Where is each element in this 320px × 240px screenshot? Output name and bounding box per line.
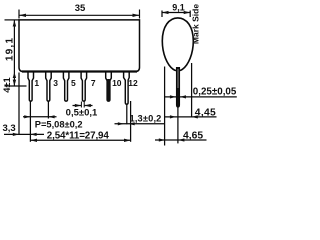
svg-text:4,45: 4,45: [195, 108, 216, 119]
svg-text:19,1: 19,1: [4, 37, 15, 61]
svg-text:0,25±0,05: 0,25±0,05: [193, 87, 237, 98]
arrowheads 35 dim: [19, 14, 26, 17]
arrowheads 4,65 (pinch at lead centerline): [159, 138, 165, 141]
arrowheads 19,1 dim: [13, 20, 16, 27]
P=5,08 dim line: [23, 116, 57, 118]
0,5 dim arrows: [73, 105, 82, 107]
dim line 35: [19, 14, 140, 16]
svg-text:4±1: 4±1: [2, 77, 12, 92]
arrowheads 0,5 (outside pinch): [75, 104, 81, 107]
pin 10 (sectioned, dark): [106, 72, 112, 101]
svg-text:P=5,08±0,2: P=5,08±0,2: [35, 120, 83, 130]
arrowheads 3,3 (outside pinch): [13, 133, 19, 136]
pin 12: [124, 72, 130, 104]
arrowheads 0,25 (outside pinch at lead): [170, 95, 176, 98]
svg-text:35: 35: [75, 3, 86, 14]
ext line right top corner: [139, 10, 141, 19]
pin3 centerline ext: [47, 102, 49, 119]
ellipse-right ext: [191, 63, 193, 117]
dim line 19,1 vertical: [13, 20, 15, 86]
svg-text:9,1: 9,1: [172, 2, 185, 12]
svg-text:Mark Side: Mark Side: [190, 4, 200, 44]
right ext for 2,54 dim: [130, 101, 132, 142]
ellipse-left ext: [164, 67, 166, 146]
0,25 dim line: [164, 96, 237, 98]
svg-text:5: 5: [71, 78, 76, 88]
pin 1: [28, 72, 34, 101]
arrowhead 4±1 top (points up at body bottom): [13, 72, 16, 78]
svg-text:10: 10: [112, 78, 122, 88]
3,3 dim line: [4, 133, 44, 135]
svg-text:0,5±0,1: 0,5±0,1: [66, 107, 98, 118]
lead center split: [177, 69, 179, 88]
9,1 dim line: [162, 12, 190, 14]
svg-text:12: 12: [128, 78, 138, 88]
body left ext down: [18, 73, 20, 135]
svg-text:3: 3: [53, 78, 58, 88]
ext line left top corner: [18, 10, 20, 19]
4,65 dim line: [155, 139, 207, 141]
pin1 centerline ext: [29, 102, 31, 142]
side lead: [177, 67, 180, 107]
svg-text:4,65: 4,65: [183, 131, 203, 142]
arrowheads 1,3 (outside pinch): [118, 122, 124, 125]
pin 3: [46, 72, 52, 101]
svg-text:7: 7: [91, 78, 96, 88]
arrowheads 4,45: [170, 115, 176, 118]
seating line: [5, 85, 27, 87]
lead centerline ext: [177, 107, 179, 143]
pin 5: [63, 72, 69, 101]
svg-text:3,3: 3,3: [3, 123, 16, 134]
pin7 tip ticks for 0,5: [80, 102, 82, 108]
body bottom edge thick: [22, 70, 137, 72]
pin12 centerline ext: [126, 105, 128, 125]
arrowheads P=5,08 (outside pinch): [24, 115, 30, 118]
svg-text:2,54*11=27,94: 2,54*11=27,94: [47, 130, 110, 141]
arrowheads 9,1: [162, 11, 169, 14]
svg-text:1: 1: [34, 78, 39, 88]
body outline (front view): [19, 20, 140, 72]
4,45 dim line: [164, 116, 217, 118]
pin 7: [81, 72, 87, 101]
arrowheads 2,54 (inside): [30, 139, 37, 142]
svg-text:1,3±0,2: 1,3±0,2: [130, 114, 162, 124]
2,54 dim line: [30, 139, 130, 141]
side view ellipse body: [162, 18, 193, 71]
body top ext to left: [5, 19, 20, 21]
1,3 dim line: [115, 123, 165, 125]
